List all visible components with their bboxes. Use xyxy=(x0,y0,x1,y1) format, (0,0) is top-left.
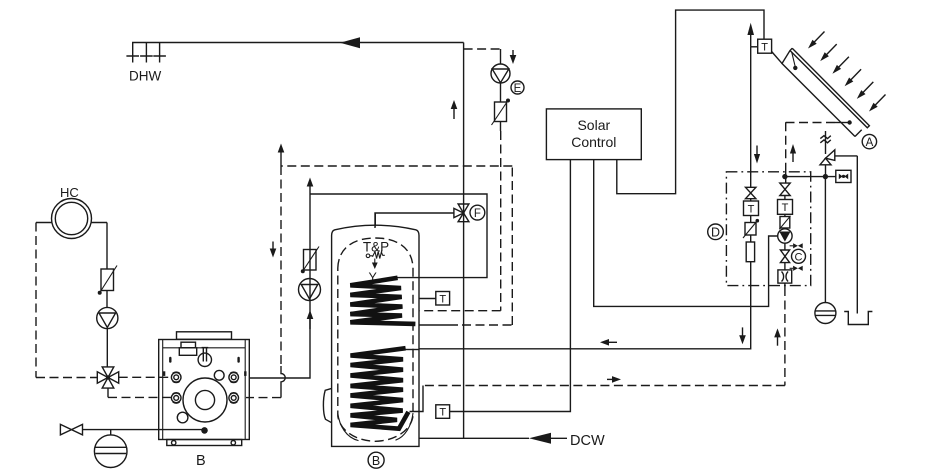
svg-text:T: T xyxy=(439,407,446,419)
svg-text:DHW: DHW xyxy=(129,69,161,84)
svg-text:Control: Control xyxy=(571,134,616,150)
svg-text:C: C xyxy=(795,252,803,264)
svg-text:B: B xyxy=(196,453,206,469)
svg-text:Solar: Solar xyxy=(577,117,610,133)
svg-text:T: T xyxy=(782,202,789,214)
svg-text:D: D xyxy=(711,225,720,239)
svg-text:T: T xyxy=(439,293,446,305)
svg-text:T: T xyxy=(761,42,768,54)
svg-text:B: B xyxy=(372,454,380,468)
svg-text:F: F xyxy=(474,208,481,220)
svg-text:DCW: DCW xyxy=(570,433,605,449)
svg-text:T&P: T&P xyxy=(363,240,389,255)
svg-text:T: T xyxy=(748,204,755,216)
svg-text:A: A xyxy=(866,137,874,149)
svg-text:HC: HC xyxy=(60,185,79,200)
svg-text:E: E xyxy=(514,83,522,95)
